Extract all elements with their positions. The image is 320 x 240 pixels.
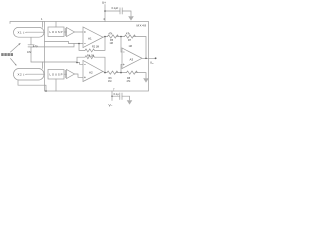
wire block B2 supply to bottom rail [55, 79, 57, 91]
wire R7 to feedback corner [133, 37, 146, 59]
wire A1 output row [103, 36, 108, 39]
svg-text:LOUSP: LOUSP [50, 73, 63, 77]
junction dot [120, 72, 122, 74]
junction dot [104, 10, 106, 12]
output terminal [155, 57, 157, 59]
resistor R8 [127, 71, 138, 74]
svg-text:V−: V− [109, 104, 113, 108]
wire V+ branch [105, 10, 120, 12]
wire pin stub to A1 -in node [45, 42, 84, 44]
wire X2 bottom to bottom rail [18, 80, 46, 91]
wire A2 output row [103, 72, 107, 73]
svg-text:1M: 1M [110, 42, 113, 45]
buffer amp U1a (top) [67, 28, 75, 37]
svg-text:1M: 1M [129, 45, 132, 48]
arrowhead to X2 [15, 64, 17, 66]
label arrow to X2 [11, 59, 17, 66]
resistor R7 [125, 35, 136, 38]
ground G3 (bottom right) [127, 100, 133, 104]
svg-text:47k: 47k [127, 80, 132, 83]
wire drop from top rail to X1 top [42, 22, 44, 28]
svg-text:A2: A2 [89, 71, 93, 75]
wire top rail left of box [10, 22, 45, 24]
op-amp input polarity marks [84, 31, 124, 78]
junction dot [145, 58, 147, 60]
wire block B1 supply to top rail [55, 22, 57, 28]
svg-text:R7: R7 [128, 39, 132, 42]
op-amp A2 [83, 61, 103, 82]
svg-text:1: 1 [41, 17, 43, 21]
wire R8 to ground [135, 73, 146, 78]
svg-text:R2 1M: R2 1M [92, 46, 99, 49]
block B1 (top) [48, 27, 64, 37]
svg-text:0.1µ: 0.1µ [114, 92, 120, 96]
ground G2 (mid right) [143, 78, 149, 82]
svg-text:LOUSP: LOUSP [50, 30, 63, 34]
transducer X1 [14, 27, 45, 37]
svg-text:V+: V+ [102, 1, 106, 5]
svg-text:0.1µF: 0.1µF [112, 6, 119, 10]
op-amp A1 [83, 27, 103, 48]
junction dot [104, 72, 106, 74]
IC box U1 outline [45, 22, 149, 92]
svg-text:R4 1M: R4 1M [87, 54, 94, 57]
junction dot [104, 36, 106, 38]
wire node to A3 -in [121, 37, 122, 53]
buffer amp U1b (bottom) [67, 70, 75, 79]
wire cap node to A1 -in node [31, 44, 74, 47]
wire A2 feedback loop [77, 57, 85, 62]
svg-text:MX48: MX48 [137, 24, 147, 28]
wire cap node to A2 -in node [31, 62, 83, 64]
wire B1 to buffer [64, 31, 67, 33]
wire buffer1 to A1 +in [75, 31, 84, 33]
V- supply wire [111, 91, 113, 101]
wire A1 feedback loop [79, 44, 85, 51]
wire X2 output to box edge [26, 73, 45, 75]
transducer X2 [14, 69, 45, 81]
label sensor note (4 glyph blobs) [1, 53, 13, 56]
V+ supply wire [104, 5, 106, 22]
wire drop to X2 top [42, 62, 44, 69]
svg-text:X1 (−: X1 (− [18, 31, 27, 35]
junction dot [111, 96, 112, 97]
capacitor C2 [119, 8, 121, 14]
block B2 (bottom) [48, 70, 64, 80]
wire B2 to buffer [64, 73, 67, 75]
wire X1 output to box edge [26, 31, 45, 33]
junction dot [120, 36, 122, 38]
resistor R2 [85, 49, 95, 52]
wire A3 output to pin [142, 57, 155, 59]
arrowhead to X1 [18, 43, 20, 45]
svg-text:X2 (−: X2 (− [18, 73, 27, 77]
wire V- branch [112, 95, 120, 97]
ground G1 (top right) [128, 16, 134, 20]
svg-text:4.7µ: 4.7µ [33, 45, 38, 48]
junction dot A2 -in node [76, 62, 78, 64]
svg-text:A3: A3 [130, 57, 134, 61]
svg-text:Uo: Uo [150, 61, 154, 66]
capacitor C3 [119, 93, 121, 100]
svg-text:1M: 1M [108, 80, 111, 83]
wire node to A3 +in [121, 65, 122, 73]
resistor R4 [85, 56, 95, 59]
svg-text:47k: 47k [109, 33, 114, 36]
op-amp A3 [122, 48, 142, 69]
junction dot [45, 90, 47, 92]
resistor R6 [107, 71, 118, 74]
capacitor C1 below X1 [30, 38, 32, 45]
junction dot A1 -in node [78, 43, 80, 45]
label arrow to X1 [11, 44, 21, 53]
svg-text:10V: 10V [27, 51, 32, 54]
resistor R5 [108, 35, 119, 38]
wire buffer2 to A2 +in [75, 74, 84, 77]
svg-text:A1: A1 [88, 37, 92, 41]
